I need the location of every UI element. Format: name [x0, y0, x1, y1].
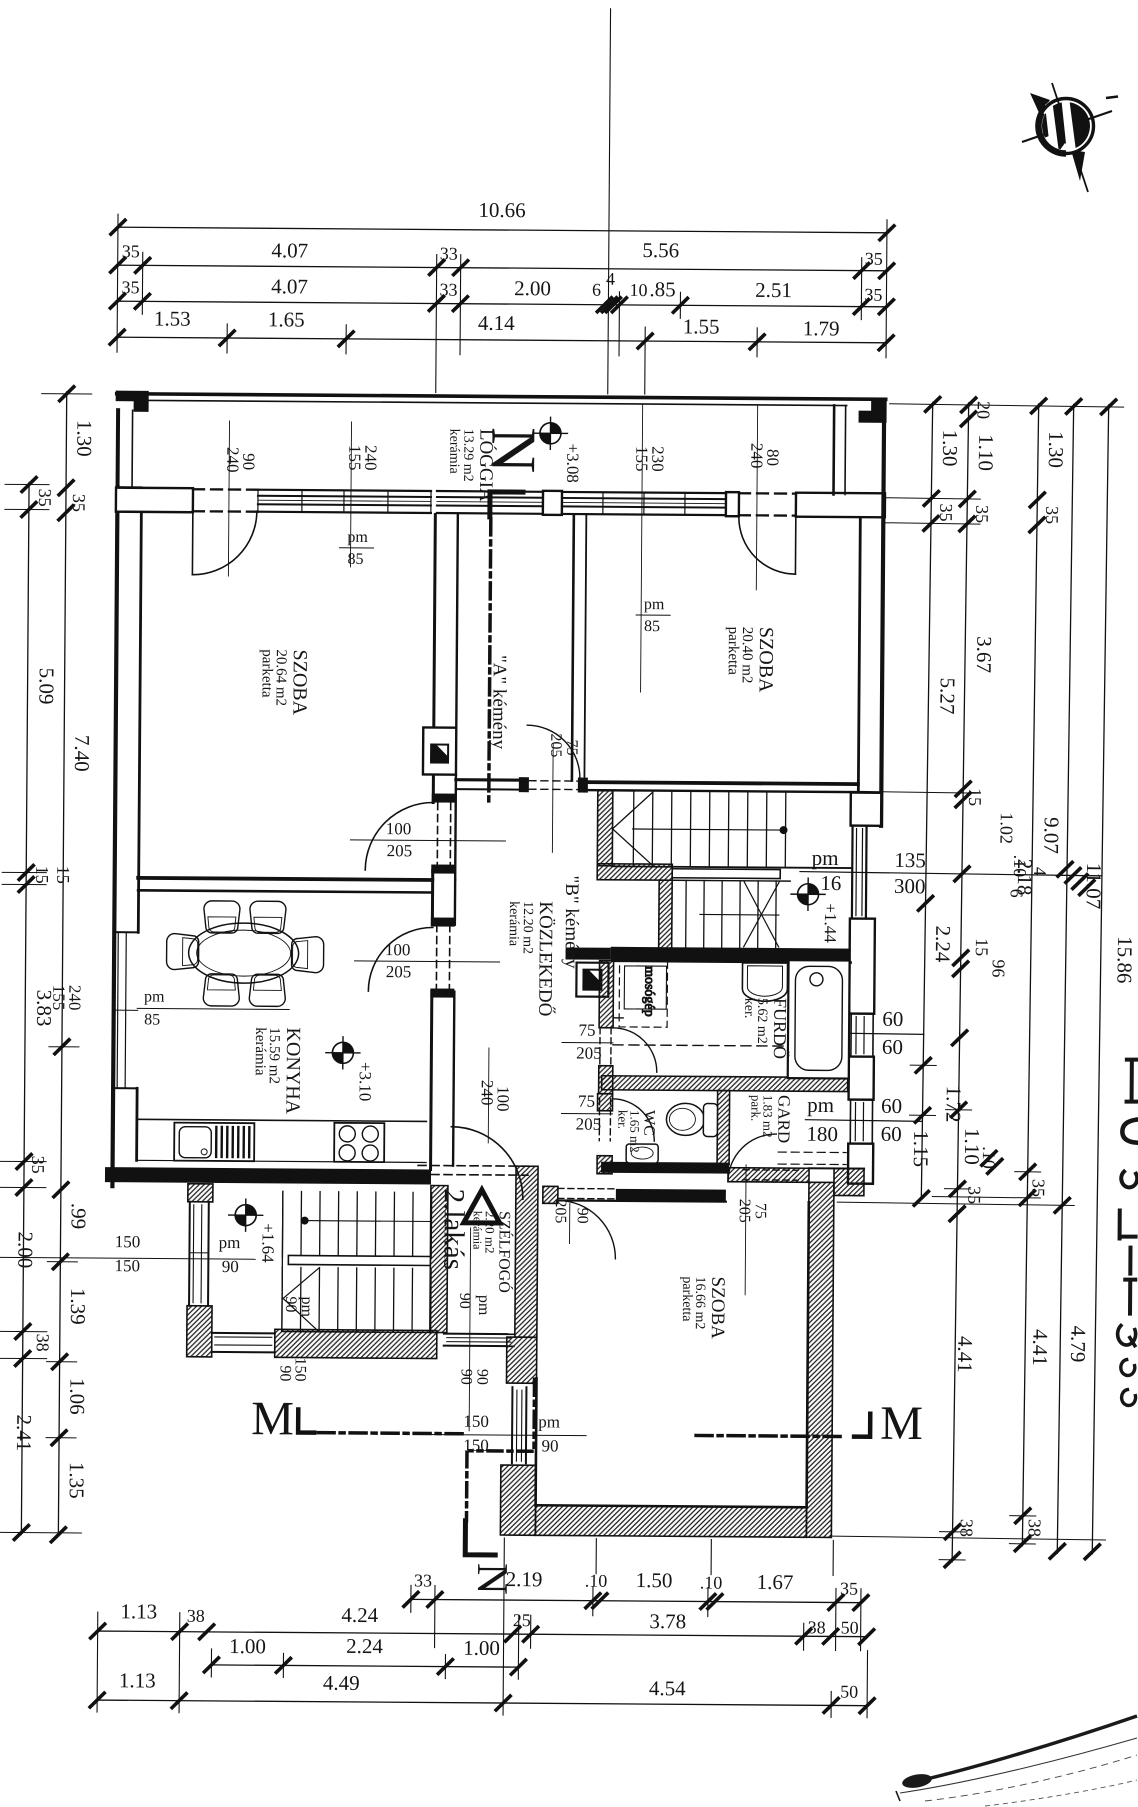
stray mark top right: [1106, 97, 1118, 99]
right wall middle section: [849, 919, 875, 1014]
svg-text:1.53: 1.53: [154, 306, 191, 330]
svg-text:96: 96: [988, 959, 1008, 977]
svg-text:35: 35: [1028, 1179, 1048, 1197]
top-left corner pillar: [117, 392, 148, 411]
benchmark +3.10 konyha: [326, 1037, 360, 1069]
svg-text:kerámia: kerámia: [446, 429, 461, 475]
szoba2 right wall hatched: [806, 1182, 834, 1537]
svg-text:ker.: ker.: [741, 998, 756, 1019]
svg-text:4.41: 4.41: [953, 1336, 978, 1373]
svg-text:pm: pm: [298, 1297, 315, 1318]
extension lines top: [117, 214, 118, 352]
svg-text:pm: pm: [807, 1093, 834, 1117]
svg-text:90: 90: [541, 1436, 558, 1455]
szoba2 interior border lines: [534, 1378, 538, 1505]
left outer chain .35/5.09/.15/3.83/.35/2.00/.38/2.41: [21, 483, 29, 1535]
svg-text:205: 205: [576, 1115, 602, 1134]
wc toilet: [666, 1103, 704, 1135]
svg-text:SZOBA: SZOBA: [755, 627, 777, 693]
benchmark +1.64 stairwell: [229, 1199, 263, 1231]
svg-text:38: 38: [956, 1519, 976, 1537]
svg-text:1.55: 1.55: [683, 314, 720, 338]
svg-text:2.24: 2.24: [346, 1634, 383, 1658]
dim line .35/4.07/.33/2.00/6/4/10/.85/2.51/.35: [117, 301, 886, 307]
extension stubs left: [42, 393, 92, 395]
szoba B bottom wall: [585, 782, 858, 784]
corridor cross wall y776-787: [456, 778, 527, 782]
window kitchen left 240/155: [114, 931, 138, 933]
window szoba A 240/155: [258, 490, 431, 491]
svg-text:38: 38: [33, 1334, 53, 1352]
washbasin bath: [742, 963, 787, 1002]
entrance door / step lines: [444, 1333, 514, 1336]
stairwell left window 150/150: [188, 1202, 191, 1306]
szelfogo right wall hatched: [515, 1166, 538, 1337]
door arc corridor cross wall: [527, 725, 580, 778]
svg-text:FÜRDŐ: FÜRDŐ: [770, 998, 791, 1059]
room label FURDO: [741, 998, 791, 1059]
svg-text:205: 205: [386, 962, 412, 981]
svg-text:M: M: [251, 1392, 294, 1445]
svg-text:4.79: 4.79: [1066, 1325, 1091, 1362]
svg-text:75: 75: [578, 1092, 595, 1111]
svg-text:park.: park.: [748, 1095, 763, 1121]
signature second stroke: [900, 1738, 1137, 1793]
svg-text:2.24: 2.24: [931, 925, 956, 963]
svg-text:25: 25: [513, 1610, 531, 1630]
partition szobaA/corridor x425-440: [433, 515, 435, 803]
dimension block bottom: [90, 1535, 875, 1718]
right chain R2 .20/1.10/.35/3.67/.15/1.02/2.18/.15/.96/1.10/.35/4.41/.38: [952, 403, 969, 1562]
right wall lower pier: [848, 1144, 873, 1184]
szoba2 top wall left part: [543, 1186, 558, 1203]
svg-text:+3.08: +3.08: [563, 443, 582, 482]
dimension block top: [110, 5, 896, 396]
wc bottom wall: [601, 1162, 729, 1174]
svg-text:205: 205: [552, 1199, 569, 1223]
svg-text:4.07: 4.07: [271, 274, 308, 298]
room label SZOBA B: [725, 627, 777, 694]
left outer wall (szoba A + konyha): [112, 487, 117, 1186]
partition corridor/szoba B x570-584: [572, 516, 574, 781]
svg-text:KÖZLEKEDŐ: KÖZLEKEDŐ: [534, 901, 557, 1016]
svg-text:33: 33: [440, 244, 458, 264]
svg-text:1.30: 1.30: [1044, 431, 1069, 468]
stairwell bottom window left: [212, 1332, 275, 1334]
svg-text:60: 60: [881, 1122, 902, 1146]
svg-text:240: 240: [478, 1080, 497, 1106]
svg-text:1.10: 1.10: [974, 434, 999, 471]
svg-text:90: 90: [457, 1369, 474, 1385]
benchmark +1.44 stairs: [791, 878, 825, 910]
svg-text:pm: pm: [812, 846, 839, 870]
svg-text:35: 35: [840, 1579, 858, 1599]
svg-text:1.13: 1.13: [119, 1668, 156, 1692]
svg-text:15: 15: [965, 788, 985, 806]
svg-text:kerámia: kerámia: [506, 901, 521, 947]
svg-text:150: 150: [115, 1256, 141, 1275]
door 90/240 loggia-szobaA: [193, 488, 258, 491]
door 75/205 corridor-wc: [612, 1099, 654, 1141]
svg-text:1.13: 1.13: [120, 1599, 157, 1623]
section M left bracket: [298, 1410, 314, 1433]
svg-text:kerámia: kerámia: [470, 1211, 484, 1250]
svg-text:5.09: 5.09: [34, 668, 58, 705]
room label WC: [615, 1110, 657, 1153]
svg-text:.99: .99: [67, 1203, 91, 1229]
svg-text:GARD: GARD: [774, 1095, 793, 1143]
compass needle south spike: [1071, 150, 1085, 181]
svg-text:35: 35: [28, 1156, 48, 1174]
dining table: [188, 923, 298, 984]
svg-text:75: 75: [563, 739, 580, 755]
svg-text:2.00: 2.00: [13, 1231, 37, 1268]
compass star line ESE-WNW: [1022, 111, 1112, 142]
svg-text:1.30: 1.30: [72, 420, 96, 457]
window szoba B 230/155: [562, 492, 726, 493]
svg-text:2.41: 2.41: [12, 1414, 36, 1451]
window corridor top 434-540: [437, 490, 543, 493]
door 100/205 corridor-konyha: [435, 925, 437, 992]
svg-text:SZOBA: SZOBA: [707, 1277, 728, 1340]
svg-text:2.lakás: 2.lakás: [437, 1189, 470, 1271]
chimney A: [423, 727, 456, 774]
svg-text:38: 38: [187, 1606, 205, 1626]
front wall band piers y487-512: [116, 488, 193, 513]
right wall jog block y787-820: [851, 793, 882, 826]
svg-text:pm: pm: [219, 1233, 241, 1252]
svg-text:1.65: 1.65: [268, 307, 305, 331]
svg-text:2.51: 2.51: [755, 278, 792, 302]
benchmark +3.08 loggia: [533, 417, 567, 449]
lower flight center line: [700, 913, 779, 916]
svg-text:90: 90: [282, 1296, 299, 1312]
svg-text:parketta: parketta: [679, 1276, 694, 1322]
svg-text:7.40: 7.40: [70, 735, 94, 772]
dimension chains right: [790, 396, 1138, 1570]
svg-text:135: 135: [894, 848, 926, 872]
dim line .33/2.19/.10/1.50/.10/1.67/.35: [411, 1599, 862, 1602]
room label LOGGIA: [446, 429, 498, 502]
svg-text:15: 15: [53, 866, 73, 884]
bath left wall hatched: [599, 961, 613, 1028]
svg-text:205: 205: [547, 733, 564, 757]
svg-text:KONYHA: KONYHA: [281, 1027, 304, 1114]
svg-text:100: 100: [386, 819, 412, 838]
svg-text:"B" kémény: "B" kémény: [561, 875, 583, 969]
svg-text:150: 150: [115, 1232, 141, 1251]
wc left wall hatched: [597, 1094, 612, 1111]
svg-text:35: 35: [864, 285, 882, 305]
svg-text:75: 75: [752, 1203, 769, 1219]
svg-text:N: N: [468, 1563, 517, 1595]
dim line 1.53/1.65/4.14/1.55/1.79: [117, 337, 886, 343]
room label SZOBA A: [258, 649, 310, 716]
svg-text:1.39: 1.39: [66, 1288, 90, 1325]
top-right corner pillar: [860, 400, 886, 422]
svg-text:205: 205: [576, 1044, 602, 1063]
leader pm 135/300 window: [800, 872, 1102, 876]
svg-text:N: N: [478, 427, 549, 474]
svg-text:1.79: 1.79: [803, 316, 840, 340]
svg-text:20: 20: [973, 401, 993, 419]
svg-text:100: 100: [385, 940, 411, 959]
svg-text:35: 35: [35, 489, 55, 507]
svg-text:pm: pm: [144, 988, 165, 1005]
svg-text:205: 205: [387, 841, 413, 860]
svg-text:ker.: ker.: [615, 1110, 630, 1129]
stairwell break symbol: [283, 1267, 319, 1331]
svg-text:90: 90: [574, 1208, 591, 1224]
svg-text:85: 85: [347, 551, 363, 568]
compass needle north arrow: [1030, 93, 1050, 115]
svg-text:50: 50: [841, 1618, 859, 1638]
svg-text:15.86: 15.86: [1112, 936, 1137, 984]
middle stair upper flight treads: [633, 791, 786, 867]
svg-text:4.07: 4.07: [271, 238, 308, 262]
wc small sink: [626, 1144, 658, 1163]
svg-text:150: 150: [463, 1412, 489, 1431]
section line N vertical dash-dot: [489, 519, 491, 803]
stairwell handrail: [288, 1255, 430, 1265]
signature blob: [901, 1772, 933, 1790]
stairwell left wall bottom corner: [187, 1306, 212, 1357]
svg-text:60: 60: [881, 1094, 902, 1118]
stair bottom wall (solid): [611, 947, 851, 963]
stove: [334, 1123, 384, 1162]
svg-text:35: 35: [972, 505, 992, 523]
section line Z vertical dash-dot: [532, 1379, 536, 1447]
stairwell center line with dot: [303, 1220, 431, 1223]
extension lines bottom: [96, 1612, 99, 1712]
svg-text:.10: .10: [700, 1572, 723, 1592]
svg-text:15: 15: [972, 938, 992, 956]
right chain R3 1.30/.35/9.07/.35/4.41/.38: [1022, 404, 1038, 1546]
left outer wall upper (loggia side): [116, 410, 121, 487]
wc/gard wall: [717, 1091, 730, 1165]
svg-text:.85: .85: [649, 277, 675, 301]
svg-text:35: 35: [1042, 506, 1062, 524]
outer top wall loggia parapet: [117, 394, 886, 400]
right edge vertical text (cut off): [1117, 1060, 1138, 1406]
signature lower faint stroke: [985, 1780, 1137, 1806]
room label KOZLEKEDO: [505, 901, 557, 1016]
section line M right dash-dot: [696, 1435, 844, 1436]
bathtub: [788, 960, 850, 1078]
szoba2 left window: [511, 1387, 514, 1463]
svg-text:35: 35: [936, 503, 956, 521]
stairwell lower flight treads: [282, 1267, 431, 1332]
dim line 10.66: [118, 227, 887, 233]
entrance triangle szelfogo: [464, 1190, 500, 1223]
leader pm180 60/60 gard window: [805, 1120, 922, 1122]
svg-text:35: 35: [865, 249, 883, 269]
svg-text:5.27: 5.27: [935, 677, 960, 714]
svg-text:33: 33: [414, 1570, 432, 1590]
konyha bottom wall (solid): [105, 1167, 431, 1184]
section N bracket: [490, 492, 523, 517]
svg-text:85: 85: [644, 618, 660, 635]
svg-text:4: 4: [606, 269, 615, 289]
dim line 1.13/4.49/4.54/.50: [97, 1700, 867, 1706]
svg-text:6: 6: [1007, 889, 1027, 898]
svg-text:1.15: 1.15: [909, 1130, 934, 1167]
compass star line NNE-SSW: [1052, 83, 1088, 192]
svg-text:1.35: 1.35: [65, 1462, 89, 1499]
svg-text:pm: pm: [538, 1412, 560, 1431]
svg-text:4.54: 4.54: [649, 1676, 686, 1700]
svg-text:1.67: 1.67: [757, 1570, 794, 1594]
svg-text:+1.44: +1.44: [821, 903, 840, 943]
kitchen counter line: [136, 1119, 426, 1121]
signature small tick: [896, 1791, 900, 1801]
dim line 1.13/.38/4.24/.25/3.78/.38/.50: [98, 1631, 867, 1637]
room label GARD: [748, 1095, 793, 1144]
svg-text:+1.64: +1.64: [258, 1223, 277, 1263]
right chain R5 15.86: [1092, 405, 1108, 1554]
svg-text:35: 35: [122, 241, 140, 261]
signature main stroke: [905, 1716, 1137, 1784]
upper flight break symbol: [612, 792, 653, 865]
svg-text:205: 205: [736, 1199, 753, 1223]
door 75/205 gard-szoba2: [728, 1134, 776, 1182]
svg-text:1.02: 1.02: [996, 812, 1016, 844]
compass globe body: [1042, 102, 1090, 150]
svg-text:3.67: 3.67: [972, 636, 997, 673]
svg-text:.10: .10: [979, 1146, 999, 1169]
section line M left dash-dot: [318, 1433, 466, 1434]
svg-text:5.56: 5.56: [642, 238, 679, 262]
svg-text:90: 90: [456, 1293, 473, 1309]
svg-text:parketta: parketta: [258, 649, 274, 698]
section M right bracket: [854, 1414, 870, 1437]
bath window 60/60: [850, 1014, 852, 1057]
dashed lines gard: [778, 1151, 846, 1153]
svg-text:1.00: 1.00: [229, 1634, 266, 1658]
svg-text:1.50: 1.50: [636, 1568, 673, 1592]
svg-text:SZOBA: SZOBA: [288, 649, 310, 715]
sink unit: [174, 1123, 254, 1162]
svg-text:1.30: 1.30: [938, 429, 963, 466]
svg-text:16: 16: [820, 871, 841, 895]
svg-text:3.78: 3.78: [649, 1609, 686, 1633]
stairwell bottom hatched block: [275, 1329, 437, 1358]
svg-text:300: 300: [894, 874, 926, 898]
svg-text:1.00: 1.00: [463, 1636, 500, 1660]
szoba A bottom wall / konyha top: [138, 878, 432, 880]
svg-text:180: 180: [806, 1122, 838, 1146]
lower flight break symbol: [744, 882, 779, 947]
bottom stairwell upper flight treads: [282, 1191, 431, 1258]
pier between windows: [849, 1057, 874, 1100]
svg-text:M: M: [880, 1397, 923, 1450]
svg-text:85: 85: [144, 1011, 160, 1028]
svg-text:6: 6: [592, 280, 601, 300]
svg-text:33: 33: [439, 280, 457, 300]
svg-text:35: 35: [69, 494, 89, 512]
door 80/240 loggia-szobaB: [739, 492, 796, 495]
svg-text:155: 155: [345, 445, 364, 471]
svg-text:pm: pm: [475, 1295, 492, 1316]
right outer wall upper (szoba B): [881, 422, 884, 826]
dim line .35/4.07/.33/5.56/.35: [118, 265, 887, 271]
bath/wc wall hatched: [602, 1076, 848, 1092]
svg-text:1.06: 1.06: [65, 1378, 89, 1415]
svg-text:90: 90: [473, 1369, 490, 1385]
middle stair lower flight treads: [686, 880, 776, 948]
handrail bar: [672, 869, 780, 879]
gard window 60/60: [849, 1100, 851, 1144]
dashed line szoba2 top right: [729, 1181, 809, 1184]
entrance axis line: [469, 1228, 470, 1431]
room label KONYHA: [251, 1027, 304, 1115]
svg-text:38: 38: [1024, 1519, 1044, 1537]
dashed level line bath: [613, 1045, 789, 1046]
upper flight center line with dot: [633, 829, 784, 830]
svg-text:4.41: 4.41: [1028, 1329, 1053, 1366]
svg-text:15: 15: [32, 866, 52, 884]
stair hatched L-wall: [597, 791, 613, 866]
wall stairwell/szelfogo: [430, 1185, 448, 1332]
szoba2 bottom wall hatched: [535, 1505, 806, 1537]
svg-text:9.07: 9.07: [1039, 817, 1064, 854]
loggia right end wall: [832, 405, 835, 494]
svg-text:50: 50: [840, 1682, 858, 1702]
svg-text:240: 240: [223, 447, 242, 473]
svg-text:+3.10: +3.10: [356, 1062, 375, 1101]
door 100/205 corridor-szobaA: [436, 803, 438, 871]
room label SZELFOGO: [470, 1211, 515, 1293]
svg-text:35: 35: [121, 277, 139, 297]
right wall window 135/300: [851, 826, 854, 919]
door 100/240 corridor-szelfogo: [451, 1127, 524, 1200]
svg-text:60: 60: [882, 1035, 903, 1059]
left inner chain 1.30/.35/7.40/.99/1.39/.38/1.06/1.35: [58, 392, 66, 1535]
svg-text:parketta: parketta: [725, 627, 741, 676]
chimney B: [576, 963, 608, 997]
svg-text:pm: pm: [644, 596, 665, 613]
extension lines right: [890, 404, 1124, 407]
gard bottom wall: [728, 1168, 809, 1183]
svg-text:38: 38: [808, 1617, 826, 1637]
svg-text:75: 75: [579, 1021, 596, 1040]
svg-text:90: 90: [276, 1365, 293, 1381]
door 75/205 corridor-bath: [613, 1028, 657, 1072]
door jamb blocks corridor wall: [432, 793, 456, 802]
right chain R1 1.30/.35/5.27/2.24/...: [921, 402, 932, 1198]
svg-text:10: 10: [629, 280, 647, 300]
svg-text:4.24: 4.24: [341, 1603, 378, 1627]
svg-text:90: 90: [222, 1257, 239, 1276]
svg-text:4.14: 4.14: [478, 311, 515, 335]
svg-text:10.66: 10.66: [478, 198, 525, 222]
svg-text:2.00: 2.00: [514, 276, 551, 300]
svg-text:4.49: 4.49: [323, 1671, 360, 1695]
right chain R4 11.07/4.79: [1057, 404, 1073, 1553]
leader pm180 60/60 bath window: [807, 1033, 924, 1035]
svg-text:kerámia: kerámia: [252, 1027, 268, 1076]
door 75/205 szelfogo-szoba2: [557, 1200, 615, 1258]
dim line 1.00/2.24/1.00: [211, 1665, 518, 1667]
svg-text:60: 60: [882, 1007, 903, 1031]
svg-text:pm: pm: [347, 529, 368, 546]
dimension chains left: [0, 386, 97, 1542]
stairwell left wall top corner: [188, 1184, 213, 1202]
section Z bracket: [465, 1521, 495, 1555]
bath top border line: [614, 961, 851, 963]
svg-text:155: 155: [49, 985, 68, 1011]
room label SZOBA2: [679, 1276, 728, 1339]
